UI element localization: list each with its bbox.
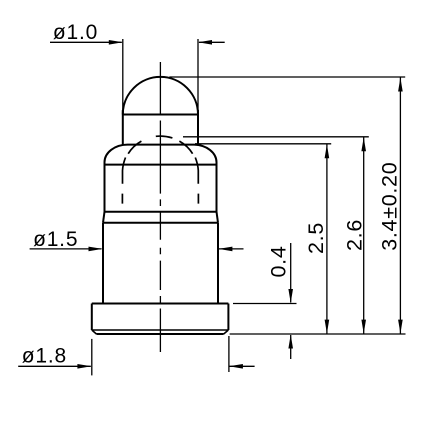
- barrel flare right: [217, 212, 219, 223]
- barrel step line upper: [105, 211, 217, 213]
- extension line 2.6: [183, 136, 369, 138]
- flange chamfer edge line: [92, 329, 229, 331]
- dim line ø1.0 right: [199, 41, 225, 43]
- arrow ø1.5 left: [89, 247, 103, 252]
- dim line 0.4 upper: [290, 243, 292, 303]
- dim line ø1.5 right: [219, 248, 244, 250]
- arrow ø1.0 left: [109, 40, 123, 45]
- arrow ø1.8 left: [77, 364, 91, 369]
- barrel upper right side: [216, 165, 218, 213]
- svg-text:ø1.5: ø1.5: [33, 228, 78, 251]
- plunger right side: [197, 110, 199, 146]
- dim line 2.6: [363, 137, 365, 333]
- hidden internal dome arc: [128, 136, 192, 154]
- arrow 0.4 down: [288, 289, 293, 303]
- dim line 3.4: [399, 78, 401, 334]
- extension line ø1.8 right: [228, 336, 230, 372]
- arrow 2.6 up: [361, 137, 366, 151]
- svg-text:2.6: 2.6: [342, 219, 366, 251]
- arrow 2.5 down: [325, 320, 330, 334]
- plunger dome: [123, 77, 198, 115]
- arrow ø1.5 right: [218, 247, 232, 252]
- dim line ø1.5 left: [30, 248, 102, 250]
- dim line 0.4 lower: [290, 335, 292, 359]
- arrow 0.4 up: [288, 335, 293, 349]
- barrel cap outline: [105, 145, 217, 166]
- plunger right side extension line: [197, 39, 199, 115]
- extension line bottom reference: [230, 333, 406, 335]
- arrow ø1.8 right: [229, 364, 243, 369]
- svg-text:ø1.8: ø1.8: [22, 345, 67, 368]
- hidden plunger right line: [195, 158, 198, 204]
- dim line ø1.0 left: [50, 41, 122, 43]
- svg-text:0.4: 0.4: [267, 246, 291, 278]
- flange top: [92, 303, 229, 305]
- barrel flare left: [103, 212, 105, 223]
- arrow ø1.0 right: [198, 40, 212, 45]
- barrel lower right side: [217, 223, 219, 304]
- plunger left side: [122, 110, 124, 146]
- extension line top reference: [169, 76, 405, 78]
- dim line 2.5: [326, 144, 328, 333]
- flange left side: [91, 304, 93, 331]
- plunger left side extension line: [122, 39, 124, 115]
- arrow 2.5 up: [325, 144, 330, 158]
- barrel cap joint line: [105, 164, 217, 166]
- extension line ø1.8 left: [91, 339, 93, 376]
- flange chamfer left: [92, 330, 97, 334]
- svg-text:2.5: 2.5: [304, 222, 328, 254]
- flange chamfer right: [224, 330, 229, 334]
- barrel upper left side: [104, 165, 106, 213]
- hidden plunger left line: [122, 158, 125, 204]
- flange right side: [227, 304, 229, 331]
- arrow 2.6 down: [361, 320, 366, 334]
- barrel step line lower: [103, 222, 218, 224]
- extension line 2.5: [195, 143, 331, 145]
- flange bottom: [96, 333, 223, 335]
- arrow 3.4 down: [398, 320, 403, 334]
- extension line flange top right: [233, 303, 297, 305]
- svg-text:ø1.0: ø1.0: [53, 21, 98, 44]
- barrel lower left side: [102, 223, 104, 304]
- centerline: [159, 62, 161, 352]
- arrow 3.4 up: [398, 78, 403, 92]
- svg-text:3.4±0.20: 3.4±0.20: [377, 162, 401, 251]
- dim line ø1.8 left: [18, 365, 91, 367]
- dim line ø1.8 right: [230, 365, 255, 367]
- dome chord line: [123, 114, 198, 116]
